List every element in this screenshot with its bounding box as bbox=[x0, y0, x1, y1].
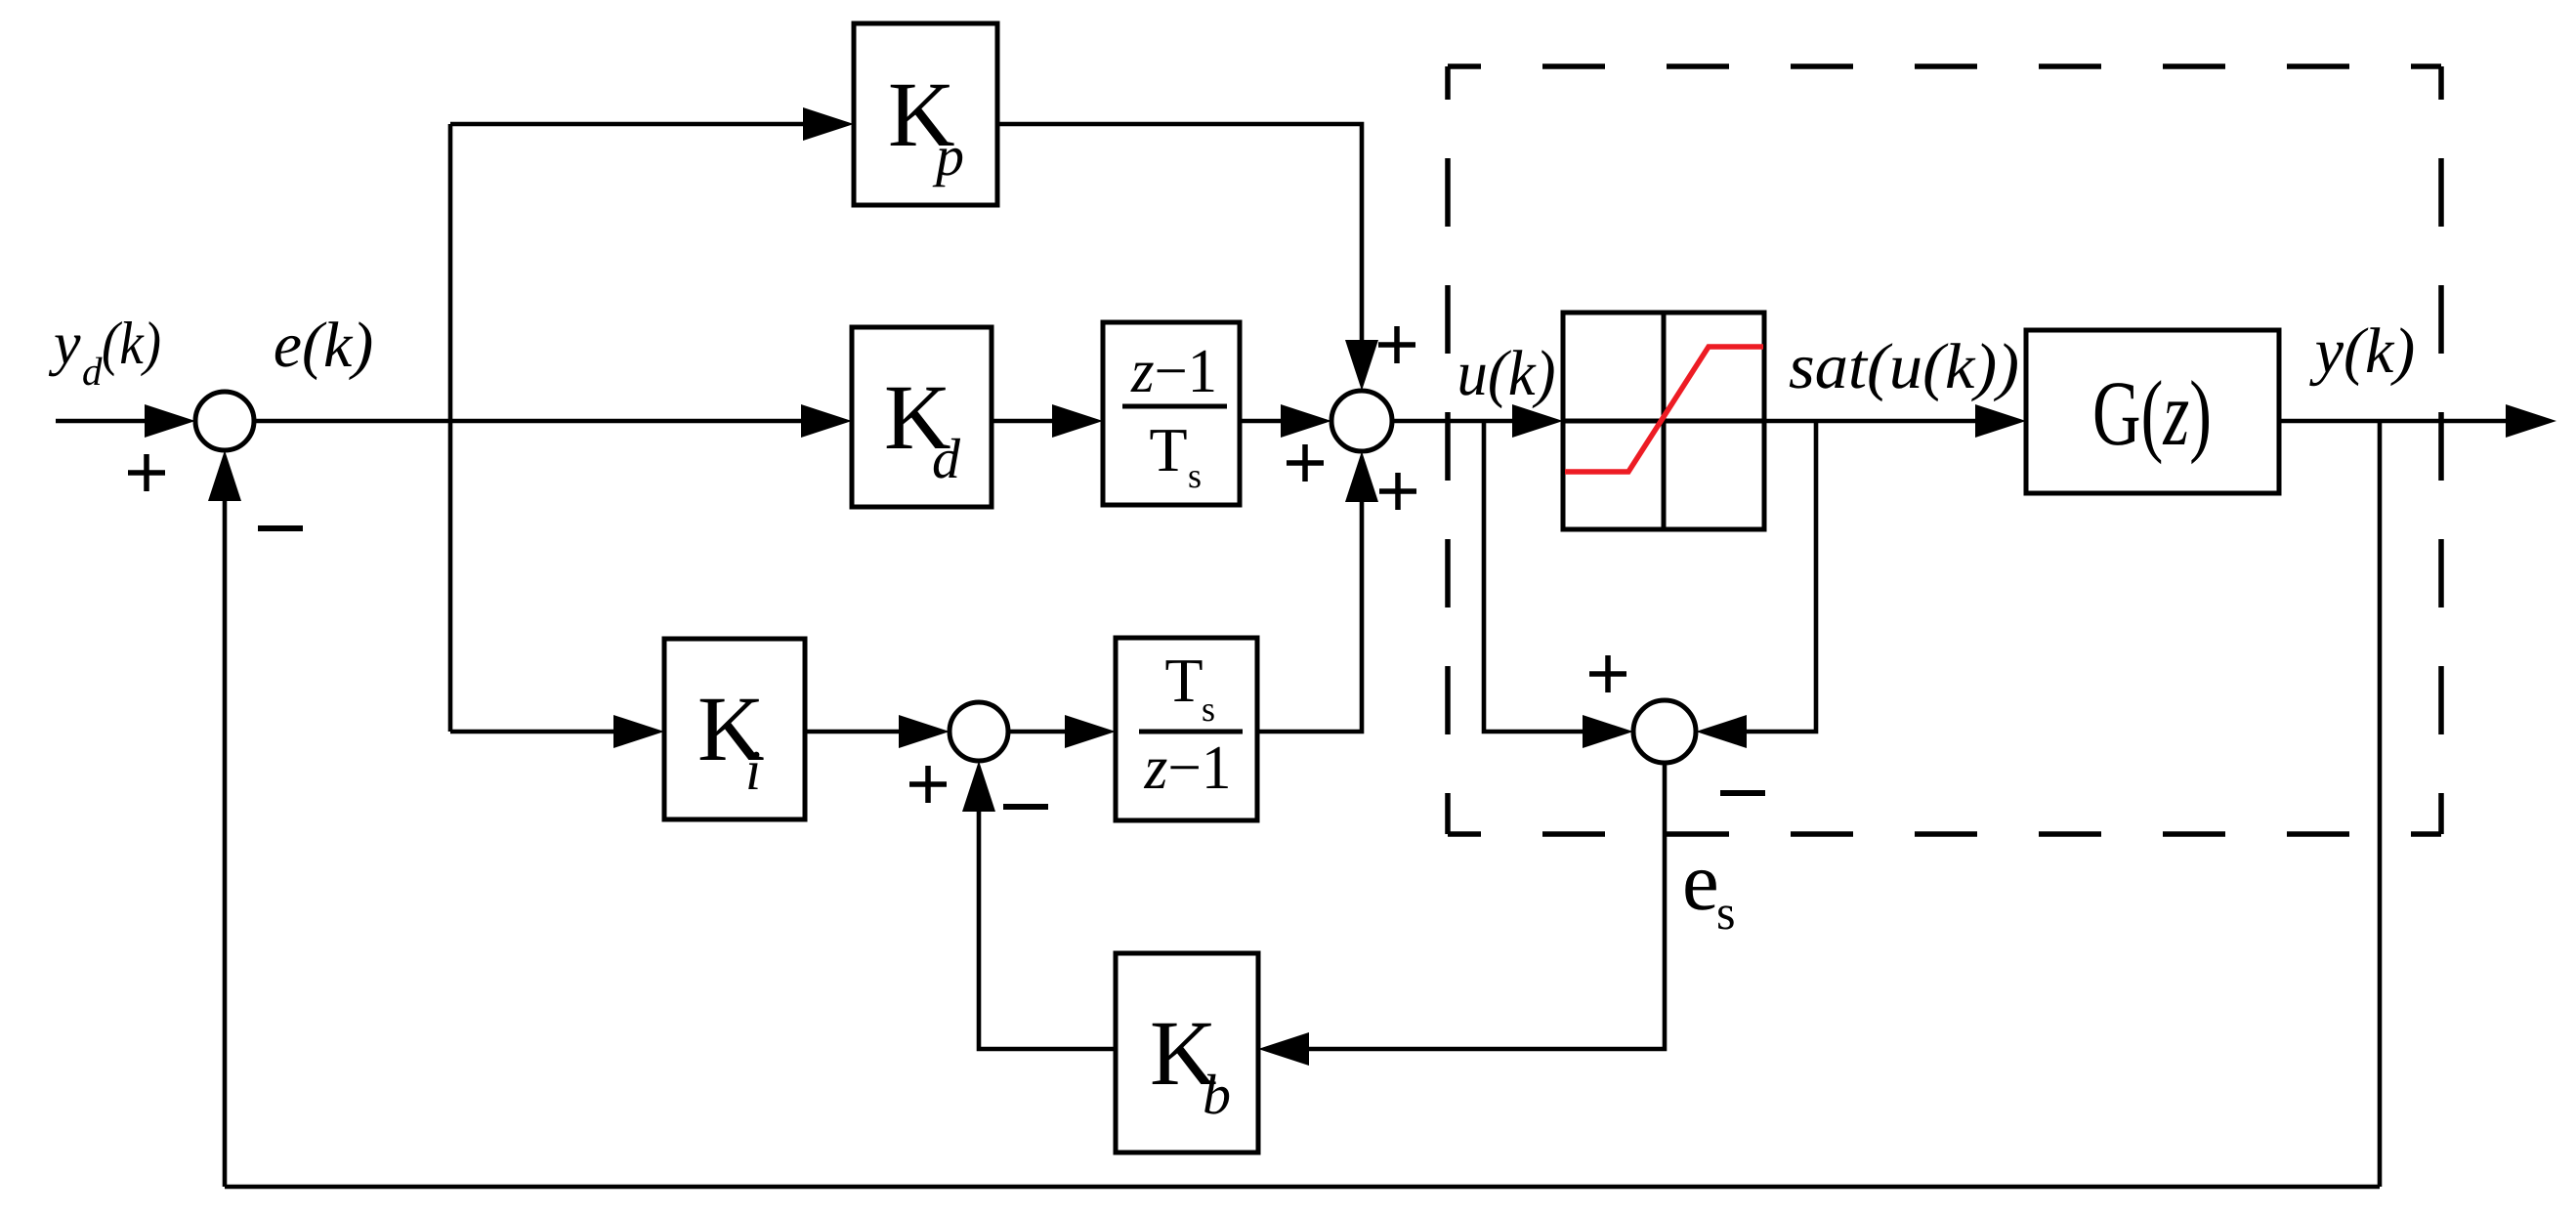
arrowhead into C3 bottom bbox=[962, 761, 995, 812]
arrowhead into G bbox=[1975, 404, 2026, 438]
summing junction C4 bbox=[1633, 700, 1696, 763]
wire e(k) main bbox=[254, 419, 803, 424]
wire branch vertical bbox=[448, 124, 453, 732]
wire feedback up left bbox=[223, 501, 228, 1187]
wire feedback down bbox=[2378, 421, 2383, 1187]
arrowhead into C2 left bbox=[1281, 404, 1331, 438]
block Kd box bbox=[852, 327, 992, 507]
label yd(k) bbox=[49, 321, 160, 385]
sign minus C3 bbox=[1003, 804, 1048, 810]
label sat(u(k)) bbox=[1790, 343, 2017, 401]
arrowhead into C4 right bbox=[1696, 715, 1747, 748]
wire u(k) branch down bbox=[1484, 421, 1583, 732]
label G(z) bbox=[2095, 380, 2209, 464]
wire C3 output bbox=[1008, 730, 1067, 734]
wire Kp output bbox=[997, 124, 1362, 342]
block Kp box bbox=[854, 23, 997, 205]
label e(k) bbox=[275, 321, 371, 380]
dashed box right bbox=[2438, 66, 2444, 834]
block deriv box bbox=[1103, 322, 1240, 505]
wire input bbox=[56, 419, 148, 424]
arrowhead into Kp bbox=[803, 107, 854, 141]
label Kd bbox=[887, 388, 960, 479]
arrowhead into integ block bbox=[1065, 715, 1116, 748]
arrowhead into C1 bottom bbox=[208, 450, 241, 501]
wire sat branch down bbox=[1747, 421, 1816, 732]
label u(k) bbox=[1460, 350, 1554, 408]
label deriv fraction bbox=[1130, 351, 1213, 488]
wire Kd output bbox=[992, 419, 1054, 424]
arrowhead into C4 left bbox=[1583, 715, 1633, 748]
arrowhead into C2 top bbox=[1345, 340, 1378, 391]
label Kp bbox=[891, 85, 963, 188]
sign plus input bbox=[128, 470, 165, 476]
integ fraction bar bbox=[1139, 730, 1243, 734]
arrowhead into C2 bottom bbox=[1345, 451, 1378, 502]
saturation axis horizontal bbox=[1563, 419, 1764, 424]
sign plus C2 left bbox=[1287, 460, 1324, 466]
sign plus C3 bbox=[909, 781, 947, 787]
label Kb bbox=[1153, 1024, 1230, 1114]
arrowhead into Kb bbox=[1258, 1032, 1309, 1066]
wire deriv block output bbox=[1240, 419, 1283, 424]
label es bbox=[1685, 870, 1733, 930]
sign plus C2 bottom bbox=[1379, 488, 1416, 494]
wire feedback bottom bbox=[225, 1185, 2380, 1190]
block integ box bbox=[1116, 638, 1257, 820]
wire integ block output up bbox=[1257, 500, 1362, 732]
dashed box bottom bbox=[1448, 831, 2441, 837]
wire y(k) output bbox=[2279, 419, 2506, 424]
arrowhead into Kd bbox=[801, 404, 852, 438]
summing junction C1 bbox=[195, 392, 254, 450]
arrowhead into deriv block bbox=[1052, 404, 1103, 438]
label y(k) bbox=[2309, 327, 2413, 386]
sign plus C4 bbox=[1589, 671, 1626, 677]
dashed box left bbox=[1445, 66, 1451, 834]
block Ki box bbox=[664, 639, 805, 819]
block G box bbox=[2026, 330, 2279, 493]
sign minus C1 bbox=[258, 525, 303, 531]
summing junction C2 bbox=[1331, 391, 1392, 451]
wire bottom branch to Ki bbox=[450, 730, 615, 734]
arrowhead into Ki bbox=[613, 715, 664, 748]
label integ fraction bbox=[1144, 660, 1228, 788]
deriv fraction bar bbox=[1122, 404, 1227, 409]
saturation box bbox=[1563, 313, 1764, 529]
wire es down from C4 bbox=[1309, 763, 1665, 1049]
arrowhead into C3 left bbox=[899, 715, 950, 748]
arrowhead input bbox=[145, 404, 195, 438]
summing junction C3 bbox=[950, 702, 1008, 761]
dashed box top bbox=[1448, 63, 2441, 69]
saturation red curve bbox=[1565, 347, 1763, 472]
saturation axis vertical bbox=[1662, 313, 1667, 529]
wire Kb output bbox=[979, 812, 1116, 1049]
label Ki bbox=[700, 699, 764, 789]
wire Ki output bbox=[805, 730, 901, 734]
wire top branch to Kp bbox=[450, 122, 805, 127]
arrowhead into sat block bbox=[1512, 404, 1563, 438]
arrowhead output bbox=[2506, 404, 2556, 438]
sign plus C2 top bbox=[1378, 342, 1415, 348]
sign minus C4 bbox=[1720, 790, 1765, 796]
block Kb box bbox=[1116, 953, 1258, 1152]
wire sat output bbox=[1764, 419, 1975, 424]
wire u(k) from C2 bbox=[1392, 419, 1514, 424]
